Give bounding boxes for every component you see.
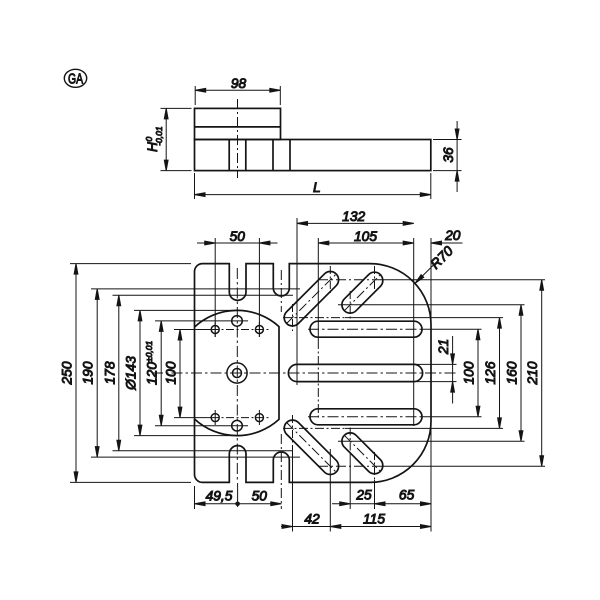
main vertical centerline: [236, 268, 238, 480]
svg-text:100: 100: [462, 361, 477, 384]
extension line 21 bottom: [412, 381, 457, 383]
diagonal slot top left: [284, 271, 338, 325]
dimension 100 right: [462, 329, 480, 417]
side view centerline: [237, 99, 239, 178]
dimension 65: [399, 428, 431, 532]
svg-text:49,5: 49,5: [206, 489, 233, 504]
extension line 21 top: [412, 363, 457, 365]
extension line 160 bottom: [338, 440, 525, 442]
svg-text:160: 160: [505, 361, 520, 384]
svg-text:20: 20: [444, 228, 461, 243]
dimension 250: [60, 264, 192, 483]
extension line 126 bottom: [283, 427, 345, 429]
svg-text:L: L: [313, 180, 321, 195]
svg-text:210: 210: [525, 361, 540, 385]
dimension 160: [505, 305, 523, 441]
main horizontal centerline: [152, 372, 456, 374]
svg-text:50: 50: [230, 229, 246, 244]
dimension 132: [297, 209, 414, 426]
side view notch edge line b: [245, 140, 247, 171]
svg-text:98: 98: [231, 76, 247, 91]
diagonal slot bottom right: [342, 433, 383, 474]
slot end vertical centerline tl upper: [329, 266, 331, 293]
side view body outline: [195, 140, 431, 171]
GA view label: [64, 69, 86, 87]
svg-text:100: 100: [164, 361, 179, 384]
extension line 100 right top: [420, 328, 482, 330]
svg-text:R70: R70: [428, 243, 457, 272]
slot axis centerline top left: [287, 274, 337, 324]
center hole counterbore: [227, 363, 247, 383]
notch2 bottom centerline: [280, 434, 282, 509]
svg-text:132: 132: [342, 209, 365, 224]
dimension 190: [81, 289, 300, 457]
dimension 20: [431, 228, 463, 325]
dimension 115: [363, 511, 431, 528]
dimension 210: [525, 280, 543, 467]
dimension 100 left: [164, 330, 271, 418]
mounting hole bottom right: [255, 410, 263, 425]
slot end vertical centerline tl lower: [292, 304, 294, 331]
svg-text:GA: GA: [68, 71, 84, 87]
slot axis centerline top right: [344, 275, 380, 311]
dimension 25: [332, 455, 431, 509]
svg-text:50: 50: [252, 489, 268, 504]
notch2 top centerline: [280, 270, 282, 312]
svg-text:H0-0,01: H0-0,01: [144, 126, 164, 152]
svg-text:190: 190: [81, 361, 96, 384]
slot end vertical centerline tr upper: [374, 266, 376, 293]
diagonal slot bottom left: [284, 420, 338, 474]
locating hole top: [232, 316, 243, 327]
dimension 36: [433, 121, 462, 192]
svg-text:250: 250: [60, 361, 75, 385]
R70 leader: [414, 243, 457, 285]
center hole bore: [233, 369, 242, 378]
mounting hole bottom left: [211, 410, 219, 425]
mounting hole top left: [211, 322, 219, 337]
extension line 100 right bottom: [420, 416, 482, 418]
extension line 160 top: [338, 304, 525, 306]
svg-text:126: 126: [483, 361, 498, 384]
dimension diameter 143: [124, 310, 241, 435]
dimension 50 top: [197, 229, 278, 337]
horizontal slot top: [310, 321, 422, 337]
svg-text:36: 36: [441, 147, 456, 163]
svg-text:178: 178: [102, 361, 117, 384]
horizontal slot middle: [288, 364, 422, 381]
slot end vertical centerline tr lower: [349, 291, 351, 319]
svg-text:120±0,01: 120±0,01: [144, 340, 160, 385]
dimension 42: [281, 511, 431, 528]
dimension H -0,01: [144, 108, 192, 170]
slot end vertical centerline br lower: [374, 452, 376, 480]
extension line 42 left: [292, 445, 294, 532]
horizontal slot bottom centerline: [308, 416, 420, 418]
boss outline: [195, 310, 280, 435]
side view boss block outline: [195, 108, 281, 139]
dimension L: [195, 173, 431, 199]
svg-text:65: 65: [399, 488, 415, 503]
slot end vertical centerline br upper: [349, 428, 351, 456]
mounting hole top right: [255, 322, 263, 337]
extension line 210 bottom: [318, 465, 545, 467]
locating hole bottom: [232, 420, 243, 431]
side view notch edge line a: [228, 140, 230, 171]
slot end vertical centerline bl lower: [329, 449, 331, 532]
dimension 178: [102, 295, 293, 451]
side view notch edge line d: [289, 140, 291, 171]
horizontal slot bottom: [310, 409, 422, 425]
svg-text:42: 42: [304, 511, 320, 526]
slot end vertical centerline bl upper: [292, 415, 294, 445]
slot axis centerline bottom left: [287, 423, 337, 473]
dimension 120 tol: [144, 321, 248, 426]
side view block divider line: [195, 126, 281, 128]
dimension 21: [436, 336, 455, 404]
svg-text:105: 105: [354, 229, 377, 244]
svg-text:Ø143: Ø143: [124, 356, 139, 391]
dimension 105: [318, 229, 413, 420]
horizontal slot top centerline: [308, 328, 420, 330]
svg-text:21: 21: [436, 339, 451, 355]
side view notch edge line c: [272, 140, 274, 171]
svg-text:25: 25: [355, 488, 372, 503]
dimension 50 bottom: [252, 489, 282, 506]
plate outline plan view: [195, 264, 432, 483]
extension line 210 top: [318, 279, 545, 281]
dimension 126: [483, 318, 501, 429]
diagonal slot top right: [342, 272, 383, 313]
slot axis centerline bottom right: [344, 435, 380, 471]
dimension 49,5: [195, 483, 282, 509]
extension line 126 top: [283, 317, 345, 319]
dimension 98: [195, 76, 280, 105]
svg-text:115: 115: [363, 511, 385, 526]
